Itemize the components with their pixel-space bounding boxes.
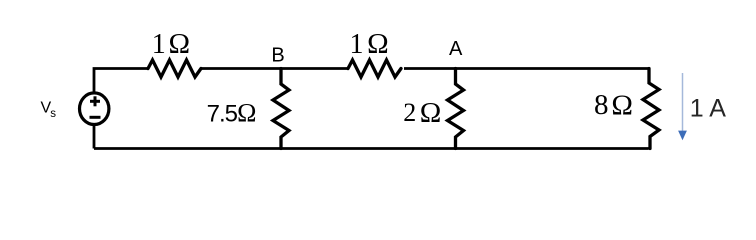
svg-text:1: 1 bbox=[350, 29, 364, 60]
svg-text:7.5: 7.5 bbox=[207, 101, 238, 128]
svg-text:Ω: Ω bbox=[169, 28, 191, 60]
svg-text:1 A: 1 A bbox=[690, 95, 726, 123]
svg-text:8: 8 bbox=[594, 89, 609, 121]
svg-text:B: B bbox=[271, 44, 284, 66]
svg-text:A: A bbox=[449, 38, 463, 60]
svg-text:s: s bbox=[50, 108, 56, 120]
svg-text:Ω: Ω bbox=[420, 97, 442, 129]
svg-text:Ω: Ω bbox=[367, 28, 389, 60]
svg-text:1: 1 bbox=[152, 29, 166, 60]
svg-text:Ω: Ω bbox=[611, 89, 633, 121]
svg-text:Ω: Ω bbox=[237, 98, 256, 127]
svg-text:2: 2 bbox=[403, 98, 416, 127]
